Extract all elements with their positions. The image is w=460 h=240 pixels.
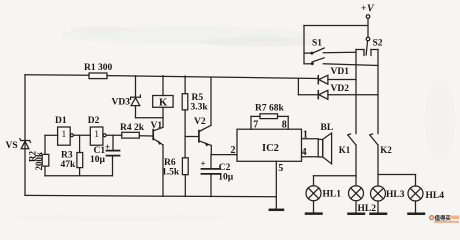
resistor R3 [77, 135, 83, 176]
svg-text:+: + [361, 4, 366, 14]
svg-text:R1 300: R1 300 [84, 63, 112, 73]
wire D1 out to D2 in [74, 134, 91, 136]
svg-text:V2: V2 [194, 117, 206, 127]
svg-text:2: 2 [231, 145, 236, 156]
wire S1 upper contact to K1 branch [323, 51, 356, 54]
svg-text:5: 5 [278, 163, 283, 174]
wire branch to HL1 [314, 176, 357, 186]
pin 7 [250, 116, 252, 129]
svg-text:D1: D1 [55, 116, 67, 126]
relay K [153, 76, 173, 128]
wire RC common bottom [45, 175, 113, 177]
svg-text:HL4: HL4 [426, 191, 445, 201]
svg-text:3.3k: 3.3k [191, 102, 209, 112]
lamp HL3 [371, 186, 386, 213]
svg-text:S2: S2 [373, 39, 383, 49]
svg-text:1.5k: 1.5k [162, 168, 180, 178]
gate D2 [90, 127, 106, 145]
node K2 branch vertical [377, 50, 379, 134]
svg-text:R7 68k: R7 68k [255, 104, 284, 114]
svg-text:R6: R6 [164, 158, 176, 168]
svg-text:值得买: 值得买 [435, 214, 452, 222]
node K1 branch vertical [355, 50, 357, 134]
switch S2 [366, 37, 370, 55]
svg-text:VD3: VD3 [112, 98, 131, 108]
ground (HL4) [409, 213, 425, 216]
svg-text:7: 7 [253, 119, 258, 130]
power +V terminal [361, 4, 375, 38]
svg-text:K1: K1 [339, 145, 351, 155]
transistor V2 [199, 77, 211, 154]
wire top rail right of R1 [107, 76, 318, 79]
resistor R4 [122, 132, 154, 138]
wire D2 out [106, 134, 122, 136]
lamp HL1 [306, 186, 321, 214]
IC U: IC2 box [237, 129, 302, 161]
diode VD3 (zener) [131, 76, 141, 118]
wire K1 to HL2 [355, 145, 357, 186]
diode VD1 [318, 75, 356, 84]
wire D1 input [45, 134, 58, 136]
pin 1 [302, 138, 319, 140]
svg-text:47k: 47k [61, 160, 77, 170]
speaker BL [318, 133, 331, 164]
pin 4 [302, 156, 319, 158]
svg-text:VD2: VD2 [331, 84, 350, 94]
transistor V1 [153, 127, 163, 196]
svg-text:IC2: IC2 [262, 143, 279, 154]
svg-text:R3: R3 [61, 151, 73, 161]
svg-text:1: 1 [94, 130, 99, 140]
resistor R5 [182, 76, 188, 158]
wire branch to HL4 [378, 175, 416, 187]
svg-text:VS: VS [6, 141, 18, 151]
pin 5 [275, 161, 277, 209]
relay contact K2 [370, 134, 378, 145]
svg-text:1: 1 [62, 130, 67, 140]
svg-text:D2: D2 [88, 116, 100, 126]
ground (HL2) [349, 213, 365, 216]
svg-text:1: 1 [303, 130, 308, 141]
svg-text:HL3: HL3 [386, 190, 405, 200]
capacitor C1 [107, 135, 120, 176]
wire top rail left of R1 [25, 74, 89, 77]
svg-text:HL2: HL2 [358, 204, 377, 214]
wire S1 lower contact to K2 branch [323, 64, 378, 66]
svg-text:VD1: VD1 [331, 67, 350, 77]
wire rail jog down to VD2 [298, 78, 318, 94]
resistor R2 [42, 135, 49, 176]
capacitor C2 [202, 155, 221, 197]
svg-text:BL: BL [321, 123, 334, 133]
svg-text:4: 4 [302, 147, 307, 158]
wire V2 emitter to IC2 pin2 [211, 154, 237, 156]
svg-text:10µ: 10µ [90, 155, 106, 165]
gate D1 [58, 127, 74, 145]
svg-text:V1: V1 [151, 121, 163, 131]
svg-text:R4 2k: R4 2k [120, 123, 145, 133]
pin 8 [287, 116, 289, 129]
wire top feed to S1 [304, 25, 368, 27]
lamp HL2 [349, 186, 364, 214]
resistor R1 [89, 73, 107, 79]
wire left branch vertical [24, 75, 26, 196]
svg-text:C2: C2 [219, 163, 231, 173]
resistor R6 [182, 158, 188, 196]
wire VD3 to V1 collector [136, 117, 164, 119]
svg-text:S1: S1 [312, 39, 322, 49]
wire R5/R6 junction to V2 base [185, 136, 199, 138]
svg-text:HL1: HL1 [323, 190, 342, 200]
wire K2 to HL3 [377, 145, 379, 186]
ground (HL3) [371, 213, 387, 216]
svg-text:10µ: 10µ [218, 172, 234, 182]
resistor R7 [251, 114, 288, 119]
svg-text:+: + [201, 159, 206, 169]
relay contact K1 [348, 134, 356, 145]
ground (HL1) [306, 212, 322, 215]
watermark logo [429, 214, 459, 223]
ground (pin 5) [270, 209, 283, 212]
svg-text:K2: K2 [380, 145, 392, 155]
svg-text:8: 8 [282, 119, 287, 130]
switch S1 [304, 26, 324, 65]
lamp HL4 [408, 186, 423, 213]
svg-text:+: + [105, 143, 110, 153]
svg-text:200k: 200k [34, 152, 44, 171]
svg-text:V: V [367, 4, 375, 15]
wire bottom rail [25, 195, 276, 196]
diode VS (zener) [20, 139, 31, 149]
wire S2 socket bracket [356, 50, 378, 56]
diode VD2 [318, 90, 378, 99]
